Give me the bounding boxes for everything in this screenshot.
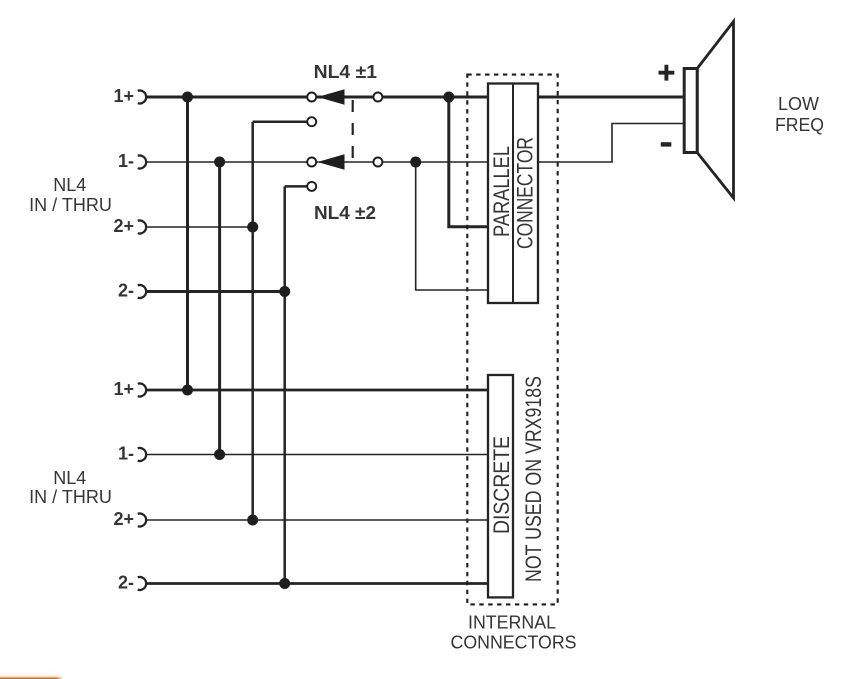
wire 1- branch down to parallel connector pin4 <box>416 162 490 290</box>
junction node top 1+ <box>182 92 193 103</box>
parallel connector divider <box>512 84 514 304</box>
wire vertical bus 2+ <box>251 122 254 520</box>
svg-text:LOW: LOW <box>778 94 819 114</box>
wire vertical bus 2- <box>283 186 286 583</box>
wire switch1 alternate throw to 2+ bus <box>253 120 312 123</box>
svg-text:1-: 1- <box>118 444 134 464</box>
wire speaker plus <box>537 96 684 99</box>
svg-text:INTERNAL: INTERNAL <box>468 613 556 633</box>
svg-text:NL4: NL4 <box>53 175 86 195</box>
svg-text:NOT USED ON VRX918S: NOT USED ON VRX918S <box>521 376 546 582</box>
junction node top 1- <box>214 157 225 168</box>
terminal arc bottom 2- <box>138 577 146 590</box>
wire bottom 2+ line <box>147 519 490 521</box>
svg-text:2+: 2+ <box>113 509 134 529</box>
svg-text:IN / THRU: IN / THRU <box>29 195 112 215</box>
footer orange bar <box>0 668 63 679</box>
internal connectors dotted boundary <box>467 75 557 605</box>
footer bar right fade <box>56 668 64 679</box>
terminal arc bottom 1+ <box>138 384 146 397</box>
switch S2 throw contact <box>373 158 382 167</box>
wire speaker minus <box>537 124 683 163</box>
switch S1 pole contact <box>307 93 316 102</box>
junction node bottom 2- <box>279 578 290 589</box>
wire top 1- line <box>147 161 490 163</box>
junction node bottom 1- <box>214 449 225 460</box>
svg-text:CONNECTOR: CONNECTOR <box>513 137 538 249</box>
switch S2 arrow <box>318 154 345 169</box>
wire top 2- line <box>147 290 285 293</box>
terminal arc top 1+ <box>138 91 146 104</box>
parallel connector box U1 <box>488 84 538 304</box>
svg-text:1+: 1+ <box>113 86 134 106</box>
wire bottom 1+ line <box>147 389 490 392</box>
switch linkage dashed line <box>352 100 354 160</box>
wire top 1+ line <box>147 96 490 99</box>
switch S2 pole contact <box>307 158 316 167</box>
svg-text:CONNECTORS: CONNECTORS <box>451 633 577 653</box>
svg-text:2+: 2+ <box>113 216 134 236</box>
wire top 2+ line <box>147 226 253 228</box>
label speaker plus <box>659 65 675 81</box>
svg-text:NL4 ±2: NL4 ±2 <box>314 203 376 223</box>
label speaker minus <box>661 142 672 146</box>
terminal arc top 2+ <box>138 221 146 234</box>
svg-text:2-: 2- <box>118 573 134 593</box>
speaker LF driver magnet <box>684 69 697 153</box>
junction node 1- to box branch <box>410 157 421 168</box>
switch S1 arrow <box>318 89 345 104</box>
wire bottom 2- line <box>147 582 490 585</box>
svg-text:NL4: NL4 <box>53 468 86 488</box>
wire vertical bus 1+ <box>186 97 189 390</box>
switch S2 alternate contact <box>307 182 316 191</box>
svg-text:NL4 ±1: NL4 ±1 <box>314 62 377 82</box>
svg-text:1-: 1- <box>118 151 134 171</box>
terminal arc bottom 2+ <box>138 514 146 527</box>
discrete connector box U2 <box>488 375 513 597</box>
switch S1 alternate contact <box>307 117 316 126</box>
svg-text:DISCRETE: DISCRETE <box>489 436 514 534</box>
terminal arc top 2- <box>138 285 146 298</box>
svg-text:1+: 1+ <box>113 379 134 399</box>
junction node bottom 1+ <box>182 385 193 396</box>
wire switch2 alternate throw to 2- bus <box>285 185 312 188</box>
svg-text:FREQ: FREQ <box>775 115 824 135</box>
wire bottom 1- line <box>147 454 490 456</box>
junction node bottom 2+ <box>247 515 258 526</box>
svg-text:2-: 2- <box>118 281 134 301</box>
wire vertical bus 1- <box>218 162 221 455</box>
speaker LF driver cone <box>697 22 733 199</box>
terminal arc bottom 1- <box>138 448 146 461</box>
switch S1 throw contact <box>373 93 382 102</box>
svg-text:PARALLEL: PARALLEL <box>489 146 514 237</box>
svg-text:IN / THRU: IN / THRU <box>29 487 112 507</box>
junction node top 2+ <box>247 222 258 233</box>
wire 1+ branch down to parallel connector pin3 <box>449 97 490 227</box>
terminal arc top 1- <box>138 156 146 169</box>
junction node 1+ to box branch <box>443 92 454 103</box>
junction node top 2- <box>279 286 290 297</box>
